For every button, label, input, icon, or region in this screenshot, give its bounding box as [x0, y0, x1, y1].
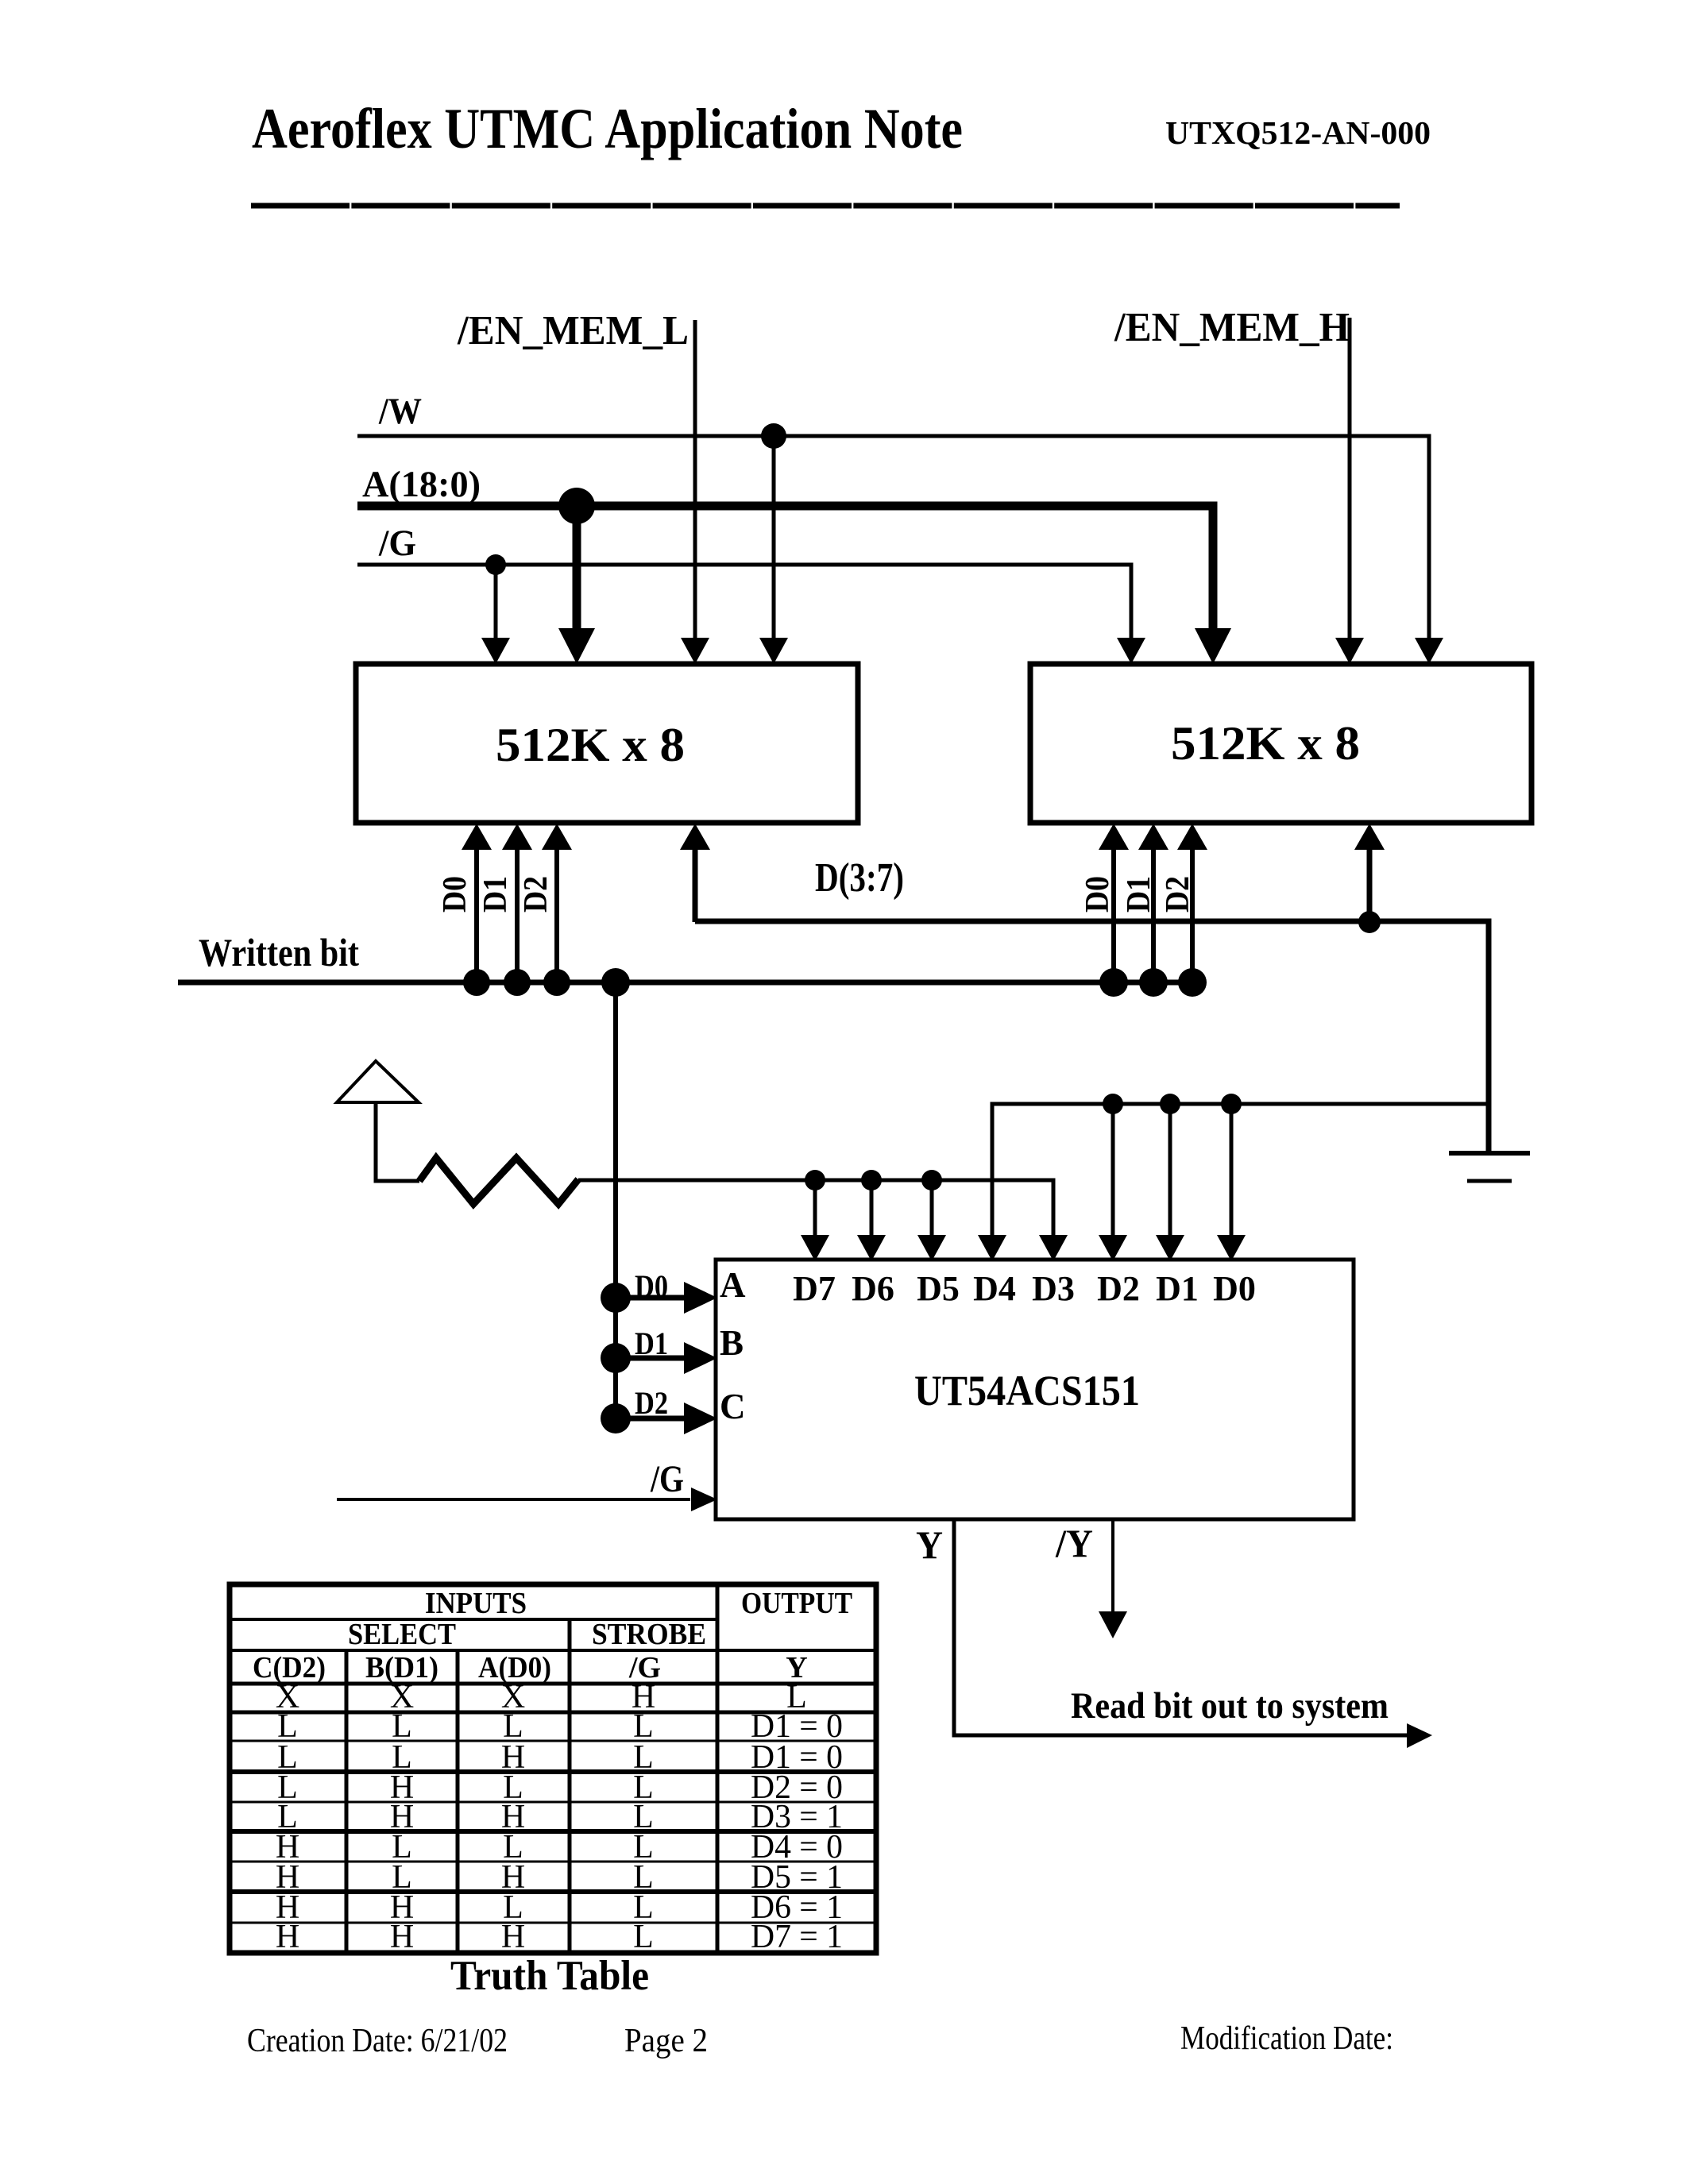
memory U1 512K x 8 (low byte)	[356, 664, 858, 823]
svg-text:D5: D5	[917, 1269, 960, 1308]
wire D2 into U2 (up arrow)	[1190, 847, 1195, 982]
svg-text:D0: D0	[1080, 876, 1116, 913]
wire D2 down into mux	[1111, 1104, 1115, 1237]
junction ground line to D1	[1160, 1094, 1180, 1114]
svg-text:H: H	[390, 1919, 414, 1955]
svg-text:/W: /W	[378, 391, 422, 432]
junction dot A bus branch	[558, 488, 595, 524]
wire /G strobe into mux	[337, 1498, 690, 1501]
svg-text:Read bit out to system: Read bit out to system	[1071, 1685, 1389, 1727]
wire D1 into U1 (up arrow)	[515, 847, 520, 982]
arrowhead /G into U1	[481, 638, 510, 664]
junction U2-D2 on Written bit	[1178, 968, 1207, 997]
svg-text:D1: D1	[1156, 1269, 1199, 1308]
wire select D1 arrow into pin B	[616, 1356, 685, 1361]
wire /W horizontal	[357, 436, 1429, 642]
junction U1-D2 on Written bit	[543, 969, 570, 996]
wire /G branch vertical	[494, 565, 498, 642]
svg-text:STROBE: STROBE	[592, 1618, 706, 1651]
svg-text:D7 = 1: D7 = 1	[751, 1919, 843, 1955]
junction dot select D1	[601, 1343, 631, 1373]
arrowhead /W into U2	[1415, 638, 1443, 664]
svg-text:D4: D4	[973, 1269, 1016, 1308]
junction U1-D1 on Written bit	[504, 969, 531, 996]
wire D2 into U1 (up arrow)	[554, 847, 559, 982]
wire D(3:7) horizontal	[695, 921, 1489, 1153]
wire D(3:7) up into U2	[1367, 847, 1373, 922]
bus A(18:0) horizontal	[357, 506, 1213, 631]
junction ground line to D0	[1221, 1094, 1242, 1114]
wire pull-up line to D3	[578, 1180, 1053, 1237]
svg-text:/EN_MEM_L: /EN_MEM_L	[457, 308, 689, 353]
svg-text:D7: D7	[793, 1269, 836, 1308]
svg-text:D2: D2	[518, 876, 554, 913]
svg-text:/EN_MEM_H: /EN_MEM_H	[1114, 305, 1350, 350]
svg-text:D1: D1	[477, 876, 514, 913]
svg-text:Y: Y	[916, 1522, 943, 1567]
wire /EN_MEM_L vertical	[693, 320, 697, 642]
junction pull-up to D7	[805, 1170, 825, 1190]
svg-text:512K x 8: 512K x 8	[496, 719, 685, 771]
svg-text:OUTPUT: OUTPUT	[741, 1587, 852, 1620]
svg-text:D0: D0	[635, 1268, 668, 1304]
multiplexer U3 UT54ACS151	[716, 1260, 1354, 1519]
wire D0 down into mux	[1230, 1104, 1234, 1237]
wire /G horizontal	[357, 565, 1131, 642]
svg-text:D1: D1	[635, 1325, 668, 1361]
svg-text:Truth Table: Truth Table	[450, 1953, 649, 1999]
junction dot select D0	[601, 1283, 631, 1313]
arrowhead /G into U2	[1117, 638, 1145, 664]
wire D(3:7) up into U1	[693, 847, 698, 922]
wire /Y output	[1111, 1519, 1114, 1613]
bus A branch vertical	[573, 506, 581, 631]
wire mux select branch vertical	[613, 982, 618, 1418]
arrowhead Y output right	[1407, 1723, 1432, 1748]
svg-text:/G: /G	[378, 523, 416, 564]
arrowhead A into U2	[1195, 628, 1231, 664]
svg-text:/Y: /Y	[1055, 1521, 1093, 1565]
svg-text:512K x 8: 512K x 8	[1171, 717, 1360, 770]
svg-text:SELECT: SELECT	[348, 1618, 456, 1651]
wire D7 down into mux	[813, 1180, 817, 1237]
header separator rule	[251, 203, 1400, 209]
svg-text:D0: D0	[1213, 1269, 1256, 1308]
wire grounded line (D4,D2,D1,D0)	[992, 1104, 1489, 1237]
arrowhead D3 into mux	[1039, 1235, 1068, 1261]
junction U2-D0 on Written bit	[1099, 968, 1128, 997]
svg-text:H: H	[501, 1919, 525, 1955]
svg-text:Creation Date: 6/21/02: Creation Date: 6/21/02	[247, 2023, 508, 2059]
wire D0 into U1 (up arrow)	[474, 847, 479, 982]
junction pull-up to D5	[921, 1170, 942, 1190]
wire Written bit horizontal	[178, 980, 1206, 986]
svg-text:B: B	[720, 1323, 744, 1363]
svg-text:D2: D2	[1097, 1269, 1140, 1308]
svg-text:D6: D6	[852, 1269, 894, 1308]
junction ground line to D2	[1103, 1094, 1123, 1114]
svg-text:A: A	[720, 1265, 746, 1305]
power symbol (supply triangle)	[337, 1061, 419, 1102]
wire D5 down into mux	[930, 1180, 934, 1237]
wire Y output	[954, 1519, 1408, 1735]
svg-text:A(18:0): A(18:0)	[362, 464, 481, 505]
wire D1 down into mux	[1168, 1104, 1172, 1237]
truth table	[230, 1584, 876, 1953]
arrowhead D4 into mux	[978, 1235, 1006, 1261]
svg-text:UT54ACS151: UT54ACS151	[914, 1367, 1140, 1414]
svg-text:H: H	[276, 1919, 299, 1955]
wire /W branch vertical	[772, 436, 776, 642]
junction U1-D0 on Written bit	[463, 969, 490, 996]
svg-text:Written bit: Written bit	[199, 930, 359, 974]
svg-text:Page 2: Page 2	[624, 2023, 708, 2059]
svg-text:UTXQ512-AN-000: UTXQ512-AN-000	[1165, 114, 1431, 151]
wire /EN_MEM_H vertical	[1348, 318, 1352, 642]
svg-text:D0: D0	[437, 876, 473, 913]
wire D6 down into mux	[870, 1180, 874, 1237]
svg-text:D(3:7): D(3:7)	[815, 855, 904, 901]
svg-text:D1: D1	[1121, 876, 1157, 913]
arrowhead /EN_MEM_H into U2	[1335, 638, 1364, 664]
junction dot select D2	[601, 1403, 631, 1433]
svg-text:C: C	[720, 1387, 746, 1426]
junction pull-up to D6	[861, 1170, 882, 1190]
svg-text:INPUTS: INPUTS	[425, 1587, 527, 1620]
svg-text:/G: /G	[650, 1458, 684, 1500]
wire D0 into U2 (up arrow)	[1111, 847, 1116, 982]
wire select D2 arrow into pin C	[616, 1416, 685, 1422]
svg-text:Modification Date:: Modification Date:	[1180, 2020, 1393, 2057]
junction dot Written bit branch to mux	[601, 968, 630, 997]
wire from power symbol to resistor	[376, 1102, 419, 1181]
resistor R1 (pull-up)	[419, 1158, 578, 1204]
svg-text:Aeroflex UTMC Application Note: Aeroflex UTMC Application Note	[252, 97, 963, 160]
arrowhead /W into U1	[759, 638, 788, 664]
svg-text:D2: D2	[1160, 876, 1196, 913]
junction dot /W branch	[761, 423, 786, 449]
arrowhead A into U1	[558, 628, 595, 664]
svg-text:D2: D2	[635, 1385, 668, 1421]
junction dot /G branch	[485, 554, 506, 575]
arrowhead /Y down	[1099, 1611, 1127, 1638]
ground symbol	[1449, 1151, 1530, 1156]
memory U2 512K x 8 (high byte)	[1030, 664, 1532, 823]
svg-text:D3: D3	[1032, 1269, 1075, 1308]
wire D1 into U2 (up arrow)	[1151, 847, 1156, 982]
wire select D0 arrow into pin A	[616, 1295, 685, 1301]
junction dot D(3:7) to U2	[1358, 911, 1381, 933]
arrowhead /EN_MEM_L into U1	[681, 638, 709, 664]
svg-text:L: L	[633, 1919, 654, 1955]
junction U2-D1 on Written bit	[1139, 968, 1168, 997]
